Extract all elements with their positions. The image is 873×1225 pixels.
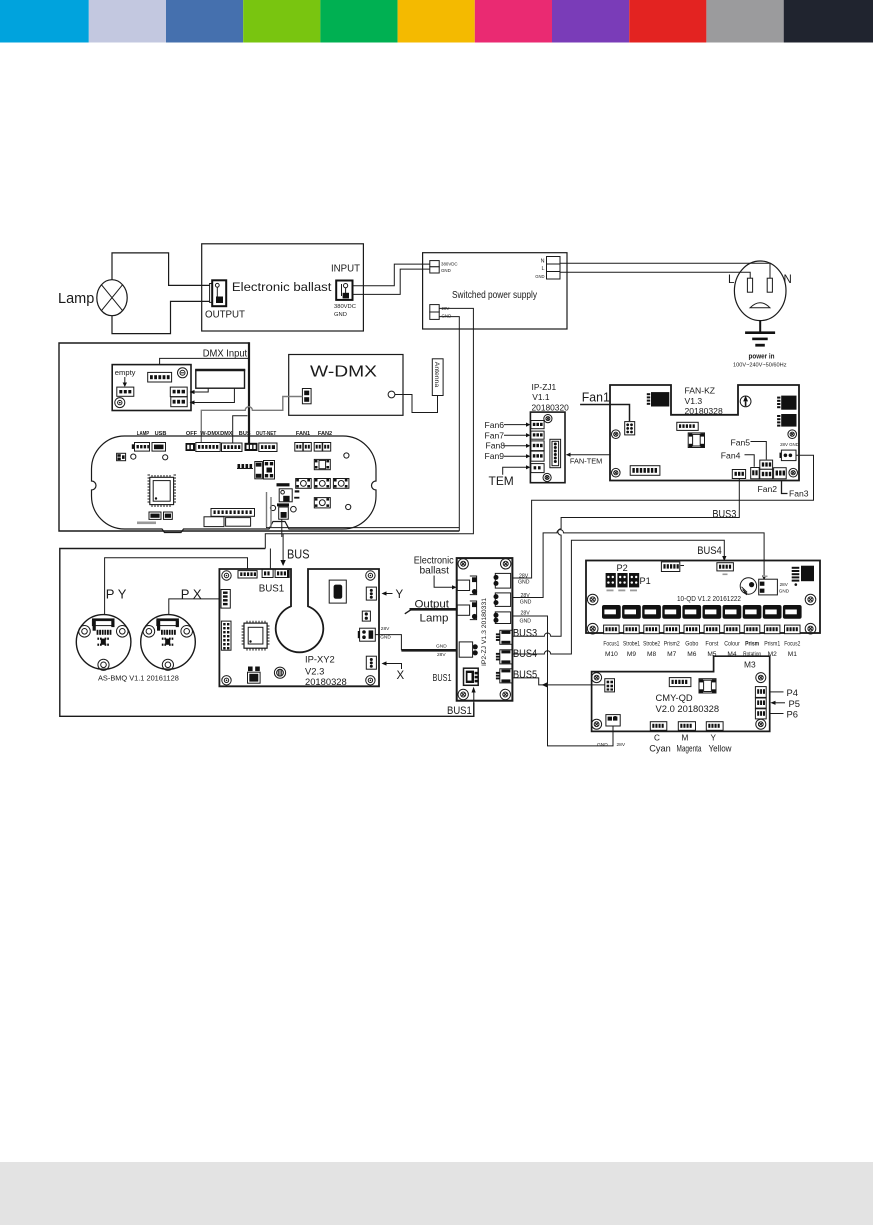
svg-text:BUS4: BUS4: [513, 648, 537, 660]
svg-text:Electronic ballast: Electronic ballast: [232, 280, 332, 294]
component module A: [204, 517, 224, 527]
svg-text:W-DMX: W-DMX: [310, 364, 377, 381]
wire 28V rail to 10-QD: [511, 530, 764, 598]
mounting hole: [344, 453, 349, 458]
button S5: [314, 498, 330, 508]
screw IP-ZJ1 top: [544, 415, 552, 423]
driver module M2: [763, 605, 782, 619]
connector power input: [262, 569, 273, 577]
wire DMX drop to display DMX connector: [233, 416, 248, 444]
connector Fan2/Fan3: [774, 468, 787, 479]
connector Fan8: [531, 441, 544, 451]
svg-text:28V: 28V: [381, 626, 390, 632]
MCU U1: [148, 475, 177, 507]
component square U8: [699, 679, 716, 693]
svg-text:Fan5: Fan5: [731, 437, 751, 447]
wire BUS1 entry arrow: [473, 692, 475, 716]
connector Fan1 input: [625, 422, 635, 435]
svg-text:Fan9: Fan9: [485, 451, 505, 461]
component Q1: [248, 667, 253, 672]
svg-text:GND: GND: [380, 634, 391, 640]
connector J4 top (BUS4 in): [717, 563, 734, 571]
wire PSU N to plug: [560, 263, 770, 278]
driver module M10: [602, 605, 621, 619]
screw IP-XY2 bottom-left: [222, 676, 231, 685]
connector top header: [669, 678, 691, 687]
svg-text:P2: P2: [617, 563, 628, 573]
svg-text:Strobe1: Strobe1: [623, 640, 640, 647]
svg-text:BUS: BUS: [239, 431, 251, 437]
svg-text:28V: 28V: [521, 593, 531, 599]
screw IP-XY2 top-right: [366, 571, 375, 580]
svg-text:INPUT: INPUT: [331, 263, 361, 275]
svg-text:GND: GND: [779, 588, 790, 593]
screw IP2-ZJ top-left: [458, 559, 468, 569]
svg-text:M4: M4: [727, 651, 736, 658]
svg-text:M7: M7: [667, 651, 676, 658]
svg-text:power in: power in: [749, 352, 775, 361]
label P5 with arrow: [774, 702, 785, 704]
connector FAN2: [314, 443, 322, 452]
svg-text:IP2-ZJ V1.3 20180331: IP2-ZJ V1.3 20180331: [481, 598, 488, 666]
IC U2 top-left: [651, 392, 669, 406]
svg-text:M6: M6: [687, 651, 696, 658]
connector DMX display: [222, 443, 243, 452]
component regulator: [255, 462, 263, 479]
antenna jack circle: [388, 391, 395, 398]
IC U7: [801, 566, 814, 582]
connector mid header: [677, 422, 698, 430]
connector DMX 5-pin header: [148, 372, 172, 382]
svg-text:empty: empty: [115, 368, 136, 377]
svg-text:BUS1: BUS1: [259, 582, 285, 594]
wire BUS3 IP2-ZJ to FAN-KZ: [510, 479, 739, 637]
wire ballast label to IP2-ZJ: [434, 576, 452, 588]
mounting hole: [346, 504, 351, 509]
svg-text:W-DMX: W-DMX: [200, 431, 220, 437]
svg-text:Antenna: Antenna: [433, 362, 440, 388]
svg-text:LAMP: LAMP: [137, 431, 150, 437]
connector P2 block 3: [629, 573, 639, 587]
connector Fan9: [531, 451, 544, 461]
component driver IC: [264, 461, 275, 480]
driver module M9: [622, 605, 641, 619]
connector FAN-TEM: [550, 439, 561, 467]
connector P5: [755, 698, 766, 708]
connector 28V out 3: [495, 612, 510, 624]
W-DMX module: [289, 355, 403, 416]
svg-text:Lamp: Lamp: [420, 612, 449, 624]
svg-text:380VDC: 380VDC: [441, 261, 458, 266]
screw IP-XY2 bottom-right: [366, 676, 375, 685]
motor PY: [76, 615, 131, 670]
connector GND 28V: [606, 715, 620, 726]
svg-text:Yellow: Yellow: [709, 744, 732, 754]
IP2-ZJ board: [457, 558, 513, 701]
svg-text:BUS1: BUS1: [433, 673, 452, 684]
connector Fan5: [760, 460, 773, 469]
svg-text:100V~240V~50/60Hz: 100V~240V~50/60Hz: [733, 363, 787, 369]
motor function labels row 1: [603, 640, 800, 647]
svg-text:M3: M3: [744, 660, 756, 670]
driver module M8: [642, 605, 661, 619]
svg-text:V1.3: V1.3: [685, 396, 703, 406]
wire BUS drop to IP-XY2: [282, 534, 284, 561]
wire PY motor to IP-XY2: [105, 558, 248, 615]
wire PSU 28V down to display board (outer run): [265, 308, 473, 548]
wire ballast INPUT to PSU GND (line 2): [353, 269, 430, 294]
svg-text:Colour: Colour: [724, 640, 740, 647]
component resistor network: [237, 468, 253, 470]
svg-text:20180328: 20180328: [685, 406, 723, 416]
connector Y: [706, 722, 723, 731]
connector W-DMX 2-pin: [302, 389, 311, 404]
connector BUS4 out: [500, 650, 512, 664]
connector M: [678, 722, 695, 731]
driver module M6: [682, 605, 701, 619]
svg-text:Fan2: Fan2: [758, 484, 778, 494]
CMY-QD board: [592, 656, 770, 731]
svg-text:Y: Y: [396, 589, 404, 601]
screw IP-ZJ1 bottom: [543, 473, 551, 481]
arrow empty pointer: [124, 377, 126, 384]
driver module M4: [723, 605, 742, 619]
motor connector row: [604, 625, 800, 634]
svg-text:DMX: DMX: [220, 431, 233, 437]
svg-text:Fan6: Fan6: [485, 420, 505, 430]
mounting hole: [163, 455, 168, 460]
wire display to BUS rail (gray pair): [266, 492, 268, 527]
connector BUS display: [245, 443, 258, 451]
svg-text:ballast: ballast: [420, 566, 450, 577]
svg-text:Strobe2: Strobe2: [643, 640, 660, 647]
svg-text:GND: GND: [520, 618, 532, 624]
display board outline: [92, 436, 377, 533]
component crystal: [329, 580, 346, 603]
svg-text:BUS5: BUS5: [513, 669, 537, 681]
driver module M7: [662, 605, 681, 619]
svg-text:M8: M8: [647, 651, 656, 658]
connector ballast in: [457, 580, 469, 590]
svg-text:DMX Input: DMX Input: [203, 349, 248, 360]
component module B: [226, 518, 251, 527]
screw CMY bottom-right: [756, 719, 766, 729]
wire PX motor to IP-XY2: [169, 599, 221, 615]
screw IP2-ZJ top-right: [501, 559, 511, 569]
screw 10-QD right-top: [805, 594, 816, 605]
connector BUS5 out: [500, 669, 512, 683]
svg-text:Y: Y: [711, 734, 717, 743]
svg-text:IP-XY2: IP-XY2: [305, 653, 335, 664]
svg-text:P5: P5: [789, 698, 800, 709]
connector XLR 3-pin: [117, 387, 134, 396]
component square U3: [688, 433, 704, 448]
svg-text:OUTPUT: OUTPUT: [205, 309, 246, 321]
svg-text:Focus1: Focus1: [603, 640, 619, 647]
driver module M5: [703, 605, 722, 619]
svg-text:Rotation: Rotation: [743, 651, 761, 658]
svg-text:Prism1: Prism1: [764, 640, 780, 647]
connector PSU 380VDC/GND input: [430, 261, 439, 267]
component inductor: [274, 667, 285, 678]
svg-text:GND: GND: [597, 742, 608, 748]
screw hole top right: [178, 368, 188, 378]
svg-text:Fan1: Fan1: [582, 391, 610, 405]
svg-text:20180320: 20180320: [532, 403, 570, 413]
svg-text:28V GND: 28V GND: [780, 442, 799, 447]
svg-text:380VDC: 380VDC: [334, 304, 356, 310]
connector OUT-NET: [259, 443, 277, 452]
svg-text:L: L: [728, 274, 735, 286]
wire lamp output thick: [410, 608, 458, 611]
motor PX: [141, 615, 196, 670]
wire DMX input header rail: [160, 358, 250, 372]
svg-text:C: C: [654, 734, 660, 743]
connector out upper 3-pin: [170, 387, 187, 397]
screw CMY bottom-left: [592, 719, 602, 729]
svg-text:P4: P4: [787, 687, 798, 698]
wire box rail drop to IP-XY2 power connector: [269, 549, 271, 569]
svg-text:P1: P1: [640, 576, 651, 586]
connector P2 block 2: [617, 573, 627, 587]
svg-text:BUS: BUS: [287, 548, 310, 562]
screw FAN-KZ left top: [612, 430, 621, 439]
buzzer BZ1: [740, 578, 756, 594]
screw IP-XY2 top-left: [222, 571, 231, 580]
screw 10-QD left-bottom: [587, 623, 598, 634]
wire lamp top to ballast OUTPUT: [112, 253, 210, 286]
mounting hole: [131, 454, 136, 459]
connector FAN1: [295, 443, 303, 452]
connector BUS input: [275, 569, 289, 577]
svg-text:M10: M10: [605, 651, 618, 658]
connector BUS1 side: [464, 668, 479, 685]
svg-text:M5: M5: [707, 651, 716, 658]
connector C: [650, 722, 667, 731]
connector BUS3 out: [732, 470, 745, 479]
label Fan3 with bracket: [782, 481, 788, 494]
electronic ballast box: [202, 244, 364, 331]
svg-text:GND: GND: [441, 268, 451, 273]
connector 28V in: [459, 642, 472, 657]
svg-text:28V: 28V: [519, 573, 529, 579]
svg-text:BUS4: BUS4: [697, 545, 722, 557]
screw 10-QD right-bottom: [805, 623, 816, 634]
svg-text:Fan4: Fan4: [721, 451, 741, 461]
color bar swatches: [0, 0, 873, 43]
MCU U6: [242, 621, 270, 651]
svg-text:GND: GND: [535, 274, 544, 279]
wire ballast INPUT to PSU 380VDC (line 1): [353, 264, 430, 286]
svg-text:OUT-NET: OUT-NET: [256, 431, 277, 437]
connector Fan6: [531, 421, 544, 429]
motor number labels row 2: [605, 651, 797, 658]
screw FAN-KZ right top: [788, 430, 797, 439]
wire 28V rail FAN-KZ to IP2-ZJ: [511, 455, 814, 578]
wire antenna to W-DMX: [395, 395, 438, 413]
screw CMY top-right: [756, 673, 766, 683]
svg-text:GND: GND: [334, 312, 347, 318]
wire PSU GND down to display board (inner run): [439, 317, 459, 531]
svg-text:M: M: [682, 734, 689, 743]
svg-text:V1.1: V1.1: [532, 392, 550, 402]
svg-text:GND: GND: [436, 644, 447, 650]
svg-text:USB: USB: [155, 431, 167, 437]
svg-text:Cyan: Cyan: [649, 744, 671, 754]
connector OFF: [186, 443, 196, 451]
svg-text:N: N: [784, 274, 792, 286]
component flash chips: [149, 512, 161, 519]
svg-text:P X: P X: [181, 586, 202, 601]
connector BUS3 out: [500, 630, 512, 644]
connector PY input: [238, 571, 257, 578]
component small IC left: [117, 453, 126, 460]
button S2: [296, 479, 312, 489]
screw 10-QD left-top: [587, 594, 598, 605]
wire W-DMX to display board (gray): [201, 397, 302, 444]
svg-text:AS-BMQ V1.1 20161128: AS-BMQ V1.1 20161128: [98, 673, 179, 682]
IC U4 right top: [781, 396, 796, 410]
connector 28V out 1: [495, 573, 510, 588]
screw FAN-KZ left bottom: [612, 468, 621, 477]
svg-text:GND: GND: [518, 580, 530, 586]
wire BUS5 IP2-ZJ to CMY-QD: [510, 678, 605, 685]
connector TEM: [531, 464, 544, 473]
svg-text:GND: GND: [442, 314, 452, 319]
connector Fan7: [531, 431, 544, 439]
svg-text:N: N: [541, 259, 545, 265]
connector bottom-left header: [630, 466, 660, 476]
svg-text:V2.0 20180328: V2.0 20180328: [656, 703, 720, 714]
connector Fan4: [751, 468, 760, 479]
svg-text:Prism2: Prism2: [664, 640, 680, 647]
connector LAMP: [135, 443, 150, 452]
button S4: [333, 479, 349, 489]
IP-XY2 board: [219, 569, 379, 686]
svg-text:28V: 28V: [437, 652, 446, 658]
label P4 with line: [770, 691, 784, 693]
pin header left: [221, 621, 231, 650]
svg-text:Magenta: Magenta: [677, 744, 702, 754]
wire terminal to lower connector: [194, 388, 234, 402]
driver module M1: [783, 605, 802, 619]
svg-text:V2.3: V2.3: [305, 665, 324, 676]
wire BUS heavy drop to display BUS connector: [248, 342, 250, 443]
label Y with arrow: [384, 593, 393, 595]
connector BUS5 in: [605, 679, 615, 692]
connector INPUT (380VDC): [336, 281, 352, 300]
screw hole bottom left: [115, 398, 125, 408]
svg-text:Prism: Prism: [745, 640, 759, 647]
svg-text:FAN-TEM: FAN-TEM: [570, 457, 602, 466]
wire display power drop: [281, 519, 283, 537]
connector OUTPUT: [210, 284, 213, 303]
screw IP2-ZJ bottom-right: [500, 689, 510, 699]
wire lamp bottom to ballast OUTPUT: [112, 301, 210, 333]
screw FAN-KZ right bottom: [789, 468, 798, 477]
svg-text:28V: 28V: [780, 582, 789, 587]
svg-text:TEM: TEM: [489, 474, 514, 488]
antenna: [432, 359, 443, 396]
connector J6 top: [661, 562, 679, 572]
svg-text:M1: M1: [788, 651, 797, 658]
svg-text:P6: P6: [787, 709, 798, 720]
silkscreen J labels: [607, 590, 614, 592]
svg-text:X: X: [397, 670, 405, 682]
svg-text:FAN1: FAN1: [296, 431, 310, 437]
wire GND branch to display board: [267, 524, 460, 528]
connector bottom header: [211, 509, 255, 517]
connector PSU 28V/GND output: [430, 305, 439, 312]
wire FAN-TEM to FAN-KZ: [567, 454, 611, 456]
connector P6: [755, 709, 766, 719]
silkscreen text: [137, 522, 156, 525]
svg-text:FAN2: FAN2: [318, 431, 332, 437]
connector 28V out: [360, 628, 376, 641]
screw IP2-ZJ bottom-left: [458, 689, 468, 699]
button S1: [314, 459, 330, 469]
switched power supply box: [423, 253, 567, 329]
svg-text:Fan7: Fan7: [485, 430, 505, 440]
connector 28V in: [759, 579, 778, 595]
svg-text:OFF: OFF: [186, 431, 198, 437]
svg-text:28V: 28V: [617, 742, 626, 748]
compass mark: [740, 396, 751, 407]
svg-text:BUS1: BUS1: [447, 705, 472, 717]
svg-text:Fan8: Fan8: [486, 441, 506, 451]
svg-text:GND: GND: [520, 599, 532, 605]
svg-text:Fan3: Fan3: [789, 489, 809, 499]
connector USB: [152, 443, 166, 452]
label X with arrow: [386, 664, 402, 670]
component diode pack: [362, 611, 370, 621]
svg-text:IP-ZJ1: IP-ZJ1: [532, 382, 557, 392]
connector W-DMX display: [196, 443, 220, 452]
svg-text:Switched power supply: Switched power supply: [452, 290, 537, 301]
svg-text:FAN-KZ: FAN-KZ: [685, 385, 716, 395]
button S3: [314, 479, 330, 489]
connector 28V out 2: [495, 593, 510, 607]
wire PSU L to plug: [560, 272, 750, 278]
connector lamp out: [457, 605, 469, 615]
IC U5 right mid: [781, 414, 796, 427]
svg-text:BUS3: BUS3: [712, 508, 736, 520]
connector PX left edge: [221, 590, 230, 609]
svg-text:P Y: P Y: [106, 586, 127, 601]
10-QD board: [586, 561, 820, 634]
svg-text:BUS3: BUS3: [513, 627, 537, 639]
wire terminal to upper connector: [194, 388, 208, 392]
svg-text:10-QD V1.2 20161222: 10-QD V1.2 20161222: [677, 594, 741, 603]
component power cluster: [277, 483, 290, 486]
svg-text:Focus2: Focus2: [784, 640, 800, 647]
connector out lower 3-pin: [171, 397, 187, 407]
enclosure box around pan/tilt section: [60, 549, 474, 717]
bottom gray bar: [0, 1162, 873, 1225]
connector P4: [755, 687, 766, 698]
svg-text:28V: 28V: [521, 610, 531, 616]
mounting hole: [270, 505, 275, 510]
terminal block: [196, 370, 245, 388]
connector X: [366, 656, 376, 669]
label P6 with line: [770, 713, 784, 715]
FAN-KZ board: [610, 385, 799, 481]
wire 28V IP-XY2 to IP2-ZJ: [375, 635, 401, 651]
driver module M3: [743, 605, 762, 619]
connector Y: [366, 587, 376, 600]
svg-text:Lamp: Lamp: [58, 291, 94, 307]
power plug: [734, 261, 786, 321]
